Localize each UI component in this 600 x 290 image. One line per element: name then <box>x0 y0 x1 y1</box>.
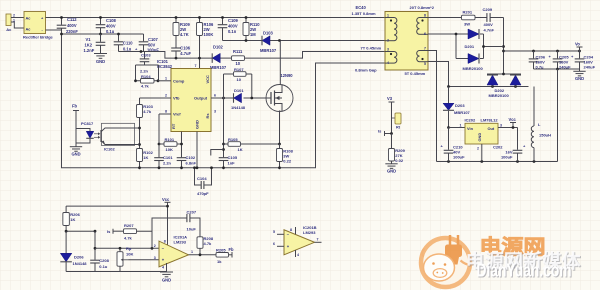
svg-text:20T 0.8mm*2: 20T 0.8mm*2 <box>410 5 435 10</box>
svg-text:7: 7 <box>424 47 426 51</box>
svg-text:D101: D101 <box>234 88 244 93</box>
svg-text:6: 6 <box>424 32 426 36</box>
svg-text:PC817: PC817 <box>81 121 94 126</box>
svg-text:R101: R101 <box>165 137 175 142</box>
svg-text:2: 2 <box>13 14 15 18</box>
wire secondary lower to D201 <box>428 33 468 35</box>
ground GND opto <box>75 143 77 147</box>
svg-text:D103: D103 <box>263 31 274 36</box>
svg-text:MBR107: MBR107 <box>260 48 277 53</box>
svg-text:0.1u: 0.1u <box>106 29 115 34</box>
wire comp pin 1 <box>158 80 171 82</box>
svg-text:GND: GND <box>71 152 80 157</box>
svg-text:0.02: 0.02 <box>395 158 404 163</box>
wire drain to clamp node <box>279 41 281 86</box>
svg-text:C104: C104 <box>197 176 207 181</box>
wire minus branch y33.5 <box>62 33 144 35</box>
svg-text:0.1u: 0.1u <box>123 47 132 52</box>
svg-text:4.7k: 4.7k <box>124 236 133 241</box>
capacitor C210 <box>448 128 450 150</box>
resistor R102 <box>137 149 143 162</box>
svg-text:Comp: Comp <box>173 79 185 84</box>
svg-text:2.2n: 2.2n <box>163 161 172 166</box>
svg-text:10K: 10K <box>126 252 133 257</box>
capacitor C106 <box>171 47 181 49</box>
svg-text:0.22: 0.22 <box>283 159 292 164</box>
wire IC201B power stubs <box>295 227 297 234</box>
diode D102 MBR107 <box>212 53 220 63</box>
svg-text:4: 4 <box>297 253 299 257</box>
svg-text:Fb: Fb <box>72 104 78 109</box>
svg-text:Fb: Fb <box>229 247 235 252</box>
svg-text:400V: 400V <box>484 22 494 27</box>
svg-text:C107: C107 <box>148 37 159 42</box>
svg-text:Ac: Ac <box>6 27 12 32</box>
wire R111 to aux winding 7T <box>245 52 386 59</box>
svg-text:5: 5 <box>273 230 275 234</box>
wire clamp to drain node <box>223 40 263 42</box>
svg-text:Vfb: Vfb <box>173 96 180 101</box>
svg-text:C208: C208 <box>99 258 109 263</box>
capacitor C101 <box>154 157 164 159</box>
connector J1 Ac <box>6 14 11 26</box>
wire IC201B output stub <box>315 241 322 243</box>
diode D103 MBR107 <box>262 36 270 46</box>
svg-text:6.8nF: 6.8nF <box>186 161 197 166</box>
svg-text:1: 1 <box>191 250 193 254</box>
wire HV- left rail and primary ground rail <box>46 30 386 168</box>
wire connector pin2 to bridge <box>11 17 24 19</box>
transistor Q1 12N90 MOSFET <box>266 85 293 112</box>
capacitor V1 1.2nF <box>100 34 102 42</box>
resistor R209 <box>389 149 395 162</box>
wire R207 to inv input <box>137 231 153 248</box>
ground GND V3 divider <box>385 163 397 165</box>
svg-text:UC3842: UC3842 <box>157 64 173 69</box>
capacitor C202 <box>517 128 519 150</box>
regulator IC202 LM78L12 <box>449 127 466 129</box>
svg-text:VCC: VCC <box>205 75 210 84</box>
svg-text:C110: C110 <box>123 41 133 46</box>
capacitor C112 <box>61 18 63 25</box>
svg-text:1N4148: 1N4148 <box>73 261 88 266</box>
svg-text:Vcc: Vcc <box>509 117 517 122</box>
ground GND primary input <box>94 53 107 55</box>
svg-text:1: 1 <box>460 124 462 128</box>
svg-text:2: 2 <box>154 244 156 248</box>
wire ref node <box>66 230 95 232</box>
svg-text:C202: C202 <box>493 145 503 150</box>
resistor R103 <box>139 98 141 105</box>
svg-text:470pF: 470pF <box>197 191 209 196</box>
wire RT pin 4 <box>181 132 183 158</box>
svg-text:1.35T 0.8mm: 1.35T 0.8mm <box>352 11 376 16</box>
svg-text:220nF: 220nF <box>66 29 78 34</box>
svg-text:2: 2 <box>387 39 389 43</box>
wire HV+ top rail <box>46 17 386 19</box>
svg-text:1: 1 <box>13 19 15 23</box>
svg-text:LM293: LM293 <box>303 230 316 235</box>
svg-text:400V: 400V <box>228 24 238 29</box>
svg-text:3: 3 <box>154 256 156 260</box>
svg-text:Rs: Rs <box>205 113 210 119</box>
svg-text:Vref: Vref <box>173 112 181 117</box>
wire snubber drop <box>503 18 505 75</box>
diode D201 MBR20100 b <box>468 54 479 64</box>
svg-text:IC202: IC202 <box>465 118 476 123</box>
svg-text:C102: C102 <box>186 155 196 160</box>
svg-text:V3: V3 <box>387 96 393 101</box>
resistor R207 <box>124 229 137 234</box>
capacitor C206 <box>533 51 535 58</box>
wire D202 cathode bus <box>487 73 521 75</box>
svg-text:3W: 3W <box>464 22 470 27</box>
capacitor C104 Y-cap <box>195 168 201 185</box>
wire secondary gnd drop <box>557 69 559 162</box>
wire Vref pin 8 <box>159 113 171 115</box>
svg-text:240uF: 240uF <box>584 65 596 70</box>
svg-text:GND: GND <box>575 76 584 81</box>
svg-text:100uF: 100uF <box>501 155 513 160</box>
capacitor C209 <box>475 17 487 19</box>
svg-text:1: 1 <box>165 77 167 81</box>
svg-text:C108: C108 <box>106 18 117 23</box>
wire output pin 6 <box>211 97 234 99</box>
ground GND secondary <box>579 69 581 71</box>
capacitor C109 clamp <box>222 18 224 25</box>
node Fb net label out <box>231 252 233 257</box>
capacitor C205 <box>557 51 559 58</box>
wire secondary top to snubber <box>428 17 462 19</box>
svg-text:4.7nF: 4.7nF <box>484 28 495 33</box>
capacitor C105 <box>219 157 229 159</box>
thermistor Rt <box>391 102 393 134</box>
svg-text:Rp: Rp <box>126 246 132 251</box>
wire source to sense <box>279 111 282 145</box>
svg-text:50V: 50V <box>148 42 156 47</box>
svg-text:R201: R201 <box>463 10 473 15</box>
svg-text:0.1n: 0.1n <box>228 29 237 34</box>
svg-text:IC102: IC102 <box>104 147 115 152</box>
wire Isense vertical <box>223 74 225 157</box>
resistor R110 <box>245 18 247 23</box>
resistor R109 <box>175 18 177 23</box>
inductor L1 150uH <box>533 87 535 127</box>
wire op-amp pin4 gnd <box>166 263 168 272</box>
svg-text:7: 7 <box>317 238 319 242</box>
svg-text:100K: 100K <box>204 32 214 37</box>
svg-text:Ac: Ac <box>26 16 32 21</box>
wire gate loop legs <box>224 74 252 98</box>
svg-text:4.7uF: 4.7uF <box>180 51 191 56</box>
svg-text:Output: Output <box>194 96 208 101</box>
capacitor C204 <box>579 51 581 58</box>
wire bottom rail <box>66 271 166 273</box>
svg-text:D203: D203 <box>455 103 465 108</box>
resistor R108 current sense 0.22 <box>277 149 283 162</box>
svg-text:GND: GND <box>477 133 482 142</box>
svg-text:C109: C109 <box>228 18 239 23</box>
zener D206 1N4148 <box>65 231 67 253</box>
svg-text:1K: 1K <box>238 147 243 152</box>
svg-text:C101: C101 <box>163 155 173 160</box>
svg-text:3: 3 <box>500 124 502 128</box>
svg-text:LM78L12: LM78L12 <box>481 118 499 123</box>
wire Vfb pin 2 <box>140 97 172 99</box>
svg-text:R111: R111 <box>233 49 243 54</box>
svg-text:V1: V1 <box>86 37 92 42</box>
wire regulator output <box>498 127 518 129</box>
svg-text:GND: GND <box>387 169 396 174</box>
svg-text:7: 7 <box>195 64 197 68</box>
op-amp U1 IC101 UC3842 PWM controller <box>171 69 211 132</box>
svg-text:D102: D102 <box>213 45 224 50</box>
opto LED IC102 PC817 <box>76 111 90 144</box>
svg-text:2: 2 <box>165 94 167 98</box>
svg-text:1.2nF: 1.2nF <box>84 48 95 53</box>
capacitor C102 <box>177 157 187 159</box>
wire regulator gnd pin 2 <box>481 144 483 162</box>
op-amp IC201A LM293 <box>159 241 189 267</box>
svg-text:400V: 400V <box>106 24 116 29</box>
svg-text:C106: C106 <box>180 46 191 51</box>
resistor R206 <box>65 206 67 212</box>
svg-text:2.2n: 2.2n <box>140 69 149 74</box>
wire Vcc filter node <box>119 52 213 59</box>
svg-text:Vin: Vin <box>467 126 474 131</box>
wire noninv wiper to op-amp <box>129 259 160 261</box>
svg-text:1K2: 1K2 <box>85 43 93 48</box>
svg-text:MBR20100: MBR20100 <box>489 93 510 98</box>
wire Vcc feed <box>66 202 167 245</box>
svg-text:12N90: 12N90 <box>281 73 294 78</box>
wire connector pin1 to bridge <box>11 22 24 28</box>
wire Vcc rail D102 to R111 <box>220 57 231 59</box>
svg-text:1K: 1K <box>70 217 75 222</box>
wire IC201B input stubs <box>277 233 284 235</box>
svg-text:C103: C103 <box>141 53 151 58</box>
resistor R101 <box>159 143 164 145</box>
svg-text:10: 10 <box>236 61 241 66</box>
svg-text:5: 5 <box>424 62 426 66</box>
resistor R107 <box>234 72 247 77</box>
svg-text:4: 4 <box>162 266 164 270</box>
resistor R205 <box>216 253 229 258</box>
svg-text:R207: R207 <box>124 223 134 228</box>
svg-text:1k: 1k <box>217 259 222 264</box>
resistor R208 <box>197 237 203 249</box>
potentiometer Rp <box>119 248 121 251</box>
wire comp loop <box>136 65 159 81</box>
resistor R111 <box>232 56 245 61</box>
op-amp IC201B LM293 spare <box>284 230 315 255</box>
svg-text:10K: 10K <box>166 147 173 152</box>
svg-text:8: 8 <box>290 228 292 232</box>
svg-text:GND: GND <box>162 277 171 282</box>
svg-text:3: 3 <box>387 48 389 52</box>
diode D203 MBR107 <box>448 87 450 104</box>
svg-text:400V: 400V <box>67 23 77 28</box>
svg-text:Ac: Ac <box>26 27 32 32</box>
svg-text:R105: R105 <box>228 137 238 142</box>
wire D202 anode bus 5T return <box>428 62 529 87</box>
svg-text:C207: C207 <box>187 210 197 215</box>
svg-text:C209: C209 <box>483 7 493 12</box>
svg-text:Vo: Vo <box>575 42 580 47</box>
capacitor C110 <box>118 34 120 41</box>
diode D202 MBR20100 a <box>492 85 494 87</box>
T1 aux winding <box>385 51 394 53</box>
resistor R201 <box>462 15 476 20</box>
svg-text:1nF: 1nF <box>228 161 236 166</box>
svg-text:0.1u: 0.1u <box>99 264 108 269</box>
svg-text:1: 1 <box>387 14 389 18</box>
wire D201 parallel legs <box>456 34 484 59</box>
wire op-amp output <box>189 254 217 256</box>
svg-text:1M: 1M <box>250 32 256 37</box>
svg-text:EC40: EC40 <box>356 5 367 10</box>
ground GND op-amp <box>160 271 173 273</box>
svg-text:4.7k: 4.7k <box>204 241 213 246</box>
svg-text:R205: R205 <box>216 248 226 253</box>
svg-text:GND: GND <box>195 120 200 129</box>
svg-text:8: 8 <box>164 240 166 244</box>
svg-text:7T 0.45mm: 7T 0.45mm <box>361 46 382 51</box>
svg-text:150uH: 150uH <box>539 133 551 138</box>
diode D201 MBR20100 a <box>468 29 479 39</box>
svg-text:DianYuan.com: DianYuan.com <box>477 261 572 281</box>
opto phototransistor <box>102 123 135 145</box>
svg-text:4.7K: 4.7K <box>180 32 189 37</box>
svg-text:8: 8 <box>165 110 167 114</box>
capacitor C208 <box>94 231 96 260</box>
resistor R106 <box>199 18 201 23</box>
diode D202 MBR20100 b <box>515 85 517 87</box>
svg-text:D201: D201 <box>465 44 475 49</box>
svg-text:C112: C112 <box>67 17 77 22</box>
svg-text:MBR20100: MBR20100 <box>463 66 484 71</box>
svg-text:4.7k: 4.7k <box>143 109 152 114</box>
wire Isense stub to pin3 <box>211 150 224 156</box>
svg-text:2: 2 <box>477 146 479 150</box>
svg-text:4: 4 <box>387 61 389 65</box>
transformer T1 EC40 <box>385 12 428 71</box>
svg-text:C105: C105 <box>228 155 238 160</box>
svg-text:10: 10 <box>237 77 242 82</box>
svg-text:GND: GND <box>96 59 105 64</box>
capacitor C103 <box>144 52 146 59</box>
capacitor C107 <box>143 34 145 41</box>
wire secondary bottom rail <box>437 161 558 163</box>
capacitor C207 feedback <box>152 218 187 248</box>
T1 secondary winding bottom <box>420 50 429 52</box>
svg-text:Out: Out <box>488 126 495 131</box>
svg-text:6: 6 <box>214 94 216 98</box>
wire inverting input net <box>95 247 159 249</box>
svg-text:D206: D206 <box>74 255 84 260</box>
svg-text:6: 6 <box>273 242 275 246</box>
wire output rail Vo <box>504 50 580 52</box>
svg-text:1K: 1K <box>143 155 148 160</box>
svg-text:3: 3 <box>214 110 216 114</box>
wire output ground bus <box>534 68 580 70</box>
svg-text:8: 8 <box>424 14 426 18</box>
opto coupling arrows <box>94 133 98 135</box>
watermark logo DianYuan <box>421 235 474 287</box>
svg-text:10uF: 10uF <box>187 227 197 232</box>
wire GND pin 5 <box>196 132 198 168</box>
svg-text:R107: R107 <box>234 67 244 72</box>
svg-text:1N4148: 1N4148 <box>231 105 246 110</box>
diode D101 1N4148 <box>234 93 242 103</box>
svg-text:R104: R104 <box>141 74 151 79</box>
svg-text:Rectifier Bridge: Rectifier Bridge <box>23 34 54 39</box>
T1 primary winding <box>385 17 394 19</box>
svg-text:4.7k: 4.7k <box>141 84 150 89</box>
svg-text:LM293: LM293 <box>174 240 187 245</box>
capacitor C108 <box>100 18 102 25</box>
svg-text:RT: RT <box>171 123 176 129</box>
svg-text:Vcc: Vcc <box>162 197 170 202</box>
svg-text:MBR107: MBR107 <box>210 65 227 70</box>
svg-text:0.8mm Gap: 0.8mm Gap <box>355 68 377 73</box>
resistor R105 <box>224 143 229 145</box>
svg-text:5T 0.45mm: 5T 0.45mm <box>405 71 426 76</box>
svg-text:100uF: 100uF <box>453 155 465 160</box>
rectifier bridge B1 <box>24 12 46 34</box>
Rp wiper arrow <box>123 259 128 261</box>
T1 secondary winding top <box>420 17 429 19</box>
resistor R104 <box>141 79 155 84</box>
svg-text:MBR107: MBR107 <box>454 110 471 115</box>
wire 5T top to secondary ground rail <box>428 51 437 162</box>
